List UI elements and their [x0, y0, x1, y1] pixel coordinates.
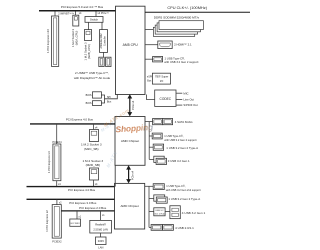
- svg-text:4 SATA 6Gb/s: 4 SATA 6Gb/s: [175, 120, 193, 124]
- svg-text:(M2A_CPU): (M2A_CPU): [75, 31, 79, 46]
- svg-text:x4 PCIe™: x4 PCIe™: [98, 12, 110, 15]
- svg-text:Realtek®: Realtek®: [95, 223, 106, 227]
- svg-text:Switch: Switch: [90, 18, 99, 22]
- svg-text:M.2 WIFI: M.2 WIFI: [71, 223, 80, 225]
- svg-text:1 PCI Express x2: 1 PCI Express x2: [45, 210, 49, 232]
- svg-text:1 M.2 Socket 3: 1 M.2 Socket 3: [83, 42, 87, 60]
- svg-text:ITE® Super: ITE® Super: [155, 75, 169, 79]
- svg-text:2 USB4™ USB Type-C™,: 2 USB4™ USB Type-C™,: [75, 71, 109, 75]
- svg-text:2 WiFi/BT™™: 2 WiFi/BT™™: [58, 13, 74, 16]
- svg-text:RJ45: RJ45: [98, 239, 105, 243]
- svg-text:with USB 3.2 Gen 2 support: with USB 3.2 Gen 2 support: [164, 60, 198, 64]
- svg-text:1 USB 3.2 Gen 2 Type-A: 1 USB 3.2 Gen 2 Type-A: [168, 197, 200, 201]
- svg-text:PCI Express 4.0 Bus: PCI Express 4.0 Bus: [68, 188, 96, 192]
- svg-text:BIOS: BIOS: [86, 94, 92, 97]
- svg-text:Gen 1 Hub: Gen 1 Hub: [154, 213, 165, 215]
- svg-text:(M2D_SB): (M2D_SB): [86, 163, 100, 167]
- svg-text:AMD Chipset: AMD Chipset: [121, 139, 139, 143]
- svg-text:PCI Express 4.0 Bus: PCI Express 4.0 Bus: [66, 117, 94, 121]
- svg-text:with DisplayPort™ Alt mode: with DisplayPort™ Alt mode: [74, 76, 111, 80]
- svg-text:Line Out: Line Out: [183, 98, 194, 102]
- svg-text:PCIEX4: PCIEX4: [52, 140, 62, 144]
- svg-text:DDR5 SODIMM 5200/4800 MT/s: DDR5 SODIMM 5200/4800 MT/s: [154, 16, 200, 20]
- svg-text:I/O: I/O: [160, 79, 163, 83]
- svg-text:1 PCI Express x16: 1 PCI Express x16: [46, 29, 50, 53]
- svg-text:4 USB 2.0/1.1: 4 USB 2.0/1.1: [175, 226, 194, 230]
- svg-text:PCI Express 3.0 Bus: PCI Express 3.0 Bus: [69, 201, 97, 205]
- svg-text:1 USB Type-C®,: 1 USB Type-C®,: [166, 184, 185, 188]
- svg-text:1 PCI Express x4: 1 PCI Express x4: [47, 151, 51, 173]
- svg-text:Bus: Bus: [107, 101, 112, 104]
- svg-text:1 USB Type-C®,: 1 USB Type-C®,: [164, 134, 183, 138]
- svg-text:CPU CLK+/- (100MHz): CPU CLK+/- (100MHz): [167, 5, 207, 10]
- svg-text:PCI Express 5.0 and 4.0 ™ Bus: PCI Express 5.0 and 4.0 ™ Bus: [61, 5, 104, 9]
- svg-text:PCIe x4: PCIe x4: [130, 170, 134, 180]
- svg-text:AM5 CPU: AM5 CPU: [123, 43, 139, 47]
- svg-text:1 USB 3.2 Gen 2 Type-A: 1 USB 3.2 Gen 2 Type-A: [166, 146, 198, 150]
- svg-text:eSPI: eSPI: [147, 76, 153, 79]
- svg-text:S/PDIF Out: S/PDIF Out: [183, 103, 198, 107]
- svg-text:Controller: Controller: [103, 36, 106, 46]
- svg-text:PCIEX2: PCIEX2: [52, 239, 62, 243]
- svg-text:SPI: SPI: [107, 96, 111, 99]
- svg-text:BIOS: BIOS: [86, 102, 92, 105]
- svg-text:3 USB 3.2 Gen 1: 3 USB 3.2 Gen 1: [168, 159, 190, 163]
- svg-text:LAN: LAN: [98, 246, 103, 250]
- svg-text:(M2B_CPU): (M2B_CPU): [87, 44, 91, 59]
- svg-text:ASMedia 4242: ASMedia 4242: [100, 33, 103, 49]
- svg-text:with USB 3.2 Gen 2x2 support: with USB 3.2 Gen 2x2 support: [166, 188, 201, 192]
- svg-text:CODEC: CODEC: [160, 97, 172, 101]
- svg-text:(M2C_SB): (M2C_SB): [84, 147, 98, 151]
- svg-text:PCIe x4: PCIe x4: [131, 100, 135, 110]
- svg-text:2.5GbE LAN: 2.5GbE LAN: [93, 227, 108, 231]
- svg-text:USB 3.2: USB 3.2: [155, 210, 164, 212]
- svg-text:2 HDMI™ 2.1: 2 HDMI™ 2.1: [174, 43, 192, 47]
- svg-text:1 USB Type-C®,: 1 USB Type-C®,: [165, 56, 186, 60]
- svg-text:AMD Chipset: AMD Chipset: [120, 204, 138, 208]
- svg-text:4 USB 3.2 Gen 1: 4 USB 3.2 Gen 1: [182, 211, 206, 215]
- svg-text:1 M.2 Socket 3: 1 M.2 Socket 3: [71, 29, 75, 47]
- svg-text:with USB 3.2 Gen 2 support: with USB 3.2 Gen 2 support: [164, 138, 196, 142]
- svg-text:PCI Express 2.0 Bus: PCI Express 2.0 Bus: [79, 206, 107, 210]
- svg-text:MIC: MIC: [183, 91, 188, 95]
